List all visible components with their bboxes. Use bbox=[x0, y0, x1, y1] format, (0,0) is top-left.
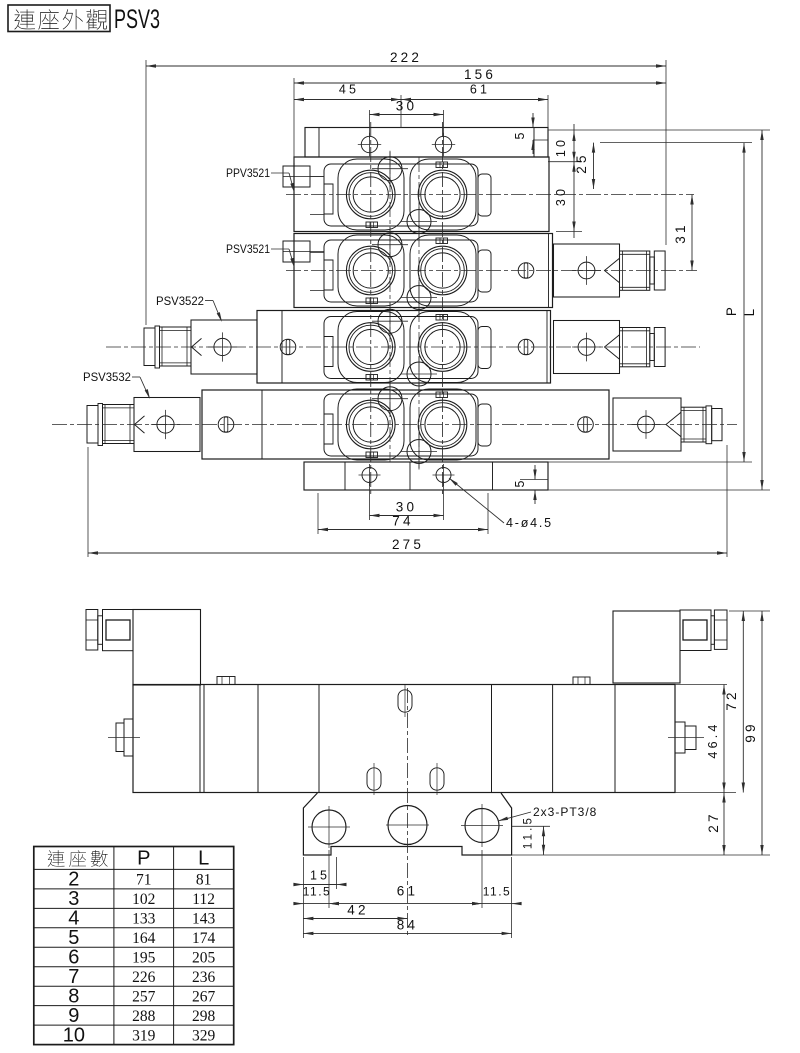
svg-text:143: 143 bbox=[192, 911, 216, 928]
svg-text:46.4: 46.4 bbox=[706, 721, 720, 758]
svg-text:11.5: 11.5 bbox=[303, 885, 331, 899]
svg-text:164: 164 bbox=[132, 930, 156, 947]
svg-text:195: 195 bbox=[132, 949, 156, 966]
svg-text:102: 102 bbox=[132, 891, 155, 908]
svg-text:222: 222 bbox=[390, 50, 422, 65]
svg-text:61: 61 bbox=[470, 83, 490, 97]
svg-text:PPV3521: PPV3521 bbox=[226, 166, 270, 180]
svg-text:174: 174 bbox=[192, 930, 216, 947]
svg-text:PSV3522: PSV3522 bbox=[156, 294, 204, 308]
svg-text:5: 5 bbox=[513, 480, 527, 487]
svg-text:84: 84 bbox=[397, 918, 418, 933]
svg-text:133: 133 bbox=[132, 911, 156, 928]
svg-text:74: 74 bbox=[392, 514, 413, 529]
svg-text:27: 27 bbox=[706, 811, 721, 832]
svg-text:99: 99 bbox=[743, 721, 758, 742]
svg-text:30: 30 bbox=[554, 186, 568, 206]
svg-text:205: 205 bbox=[192, 949, 216, 966]
svg-text:PSV3532: PSV3532 bbox=[83, 370, 131, 384]
svg-text:PSV3: PSV3 bbox=[114, 4, 160, 34]
svg-text:L: L bbox=[742, 306, 757, 317]
svg-text:319: 319 bbox=[132, 1027, 156, 1044]
svg-text:11.5: 11.5 bbox=[483, 885, 511, 899]
svg-text:71: 71 bbox=[136, 872, 152, 889]
svg-text:11.5: 11.5 bbox=[523, 815, 535, 849]
svg-text:267: 267 bbox=[192, 988, 216, 1005]
svg-text:PSV3521: PSV3521 bbox=[226, 242, 270, 256]
svg-text:236: 236 bbox=[192, 969, 216, 986]
svg-text:275: 275 bbox=[392, 537, 424, 552]
svg-text:5: 5 bbox=[513, 132, 527, 139]
svg-text:10: 10 bbox=[63, 1024, 85, 1046]
svg-text:15: 15 bbox=[310, 869, 330, 883]
svg-text:P: P bbox=[724, 304, 739, 316]
svg-text:25: 25 bbox=[574, 152, 589, 173]
svg-text:226: 226 bbox=[132, 969, 156, 986]
svg-text:81: 81 bbox=[196, 872, 212, 889]
svg-text:45: 45 bbox=[339, 83, 359, 97]
svg-text:2x3-PT3/8: 2x3-PT3/8 bbox=[533, 805, 597, 819]
svg-text:4-ø4.5: 4-ø4.5 bbox=[506, 516, 553, 530]
svg-text:61: 61 bbox=[397, 884, 418, 899]
svg-text:156: 156 bbox=[464, 67, 496, 82]
svg-text:329: 329 bbox=[192, 1027, 216, 1044]
svg-text:112: 112 bbox=[192, 891, 215, 908]
svg-text:31: 31 bbox=[673, 222, 688, 243]
svg-text:10: 10 bbox=[554, 137, 568, 157]
svg-text:30: 30 bbox=[396, 500, 417, 515]
svg-text:42: 42 bbox=[347, 903, 368, 918]
svg-text:298: 298 bbox=[192, 1008, 216, 1025]
svg-text:288: 288 bbox=[132, 1008, 156, 1025]
svg-text:L: L bbox=[198, 848, 209, 870]
svg-text:30: 30 bbox=[396, 99, 417, 114]
svg-text:72: 72 bbox=[724, 689, 739, 710]
svg-text:257: 257 bbox=[132, 988, 156, 1005]
svg-text:P: P bbox=[137, 848, 150, 870]
